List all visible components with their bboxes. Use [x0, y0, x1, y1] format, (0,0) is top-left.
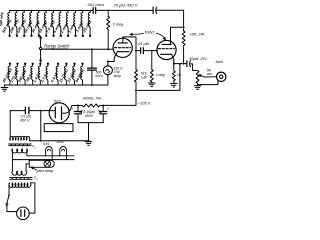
ground G1 — [1, 85, 8, 91]
capacitor C6 .01 ufd 450V buffer — [10, 107, 49, 122]
svg-text:¼W.: ¼W. — [141, 76, 148, 80]
capacitor C5 50ufd 25V — [183, 57, 208, 70]
inductor L3 row1 pos3 — [16, 10, 27, 37]
svg-text:3000Ω, 7W.: 3000Ω, 7W. — [83, 97, 102, 101]
wire top bus — [10, 9, 184, 11]
ground G5 — [85, 142, 92, 146]
inductor L11 row1 pos11 — [75, 10, 85, 37]
pilot lamp DS2 — [26, 160, 54, 171]
triode V1 (6SN7 section A) — [113, 38, 132, 61]
svg-text:mica: mica — [95, 74, 102, 78]
inductor L10 row1 pos10 — [67, 10, 76, 37]
svg-text:.001 mica: .001 mica — [87, 2, 105, 7]
wire heater/ground run — [30, 140, 90, 142]
wire wiper to grid — [42, 48, 114, 50]
lamp DS1 110V 2W — [103, 62, 123, 86]
range switch S2 wiper — [39, 36, 70, 62]
svg-text:50μfd, 25V.: 50μfd, 25V. — [189, 57, 207, 61]
inductor L16 row2 pos6 — [40, 63, 50, 85]
svg-text:ww.: ww. — [207, 72, 213, 76]
wire jack sleeve return — [198, 81, 218, 85]
inductor L5 row1 pos5 — [31, 10, 41, 37]
label 6SN7 with arrows — [130, 29, 166, 40]
wire ground bus — [5, 84, 108, 86]
svg-text:6SN7: 6SN7 — [57, 140, 65, 144]
inductor L8 row1 pos8 — [52, 10, 62, 37]
svg-text:1meg: 1meg — [156, 73, 165, 77]
transformer T1 secondary 6.3V — [12, 149, 28, 160]
svg-text:450V.: 450V. — [85, 114, 94, 118]
svg-text:Jack: Jack — [214, 60, 224, 64]
resistor R2 51K quarter W — [135, 51, 148, 91]
svg-text:6X5: 6X5 — [54, 100, 62, 104]
svg-text:3 meg.: 3 meg. — [113, 23, 125, 27]
plug P1 AC line — [17, 207, 35, 220]
inductor L18 row2 pos8 — [58, 63, 69, 85]
transformer T2 primary 115V — [9, 183, 35, 212]
inductor L15 row2 pos5 — [32, 63, 42, 85]
svg-text:+105 V.: +105 V. — [138, 100, 151, 105]
resistor R1 3 meg grid leak — [107, 10, 125, 50]
svg-text:6SN7: 6SN7 — [145, 29, 156, 34]
resistor R7 3000 ohm 7W — [82, 97, 104, 107]
inductor L17 row2 pos7 — [50, 63, 59, 85]
inductor L14 row2 pos4 — [25, 63, 34, 85]
resistor R5 1K cathode — [172, 71, 182, 83]
inductor L4 row1 pos4 — [23, 10, 33, 37]
triode V2 (6SN7 section B) — [157, 40, 176, 63]
resistor R4 10K 2W — [182, 31, 205, 46]
inductor L12 row1 pos12 — [82, 10, 93, 37]
wire filter cap rail — [78, 123, 103, 141]
label T2 — [34, 176, 39, 181]
inductor L12 row2 pos2 — [10, 63, 21, 85]
heater H1 6X5 — [43, 142, 52, 160]
inductor L19 row2 pos9 — [66, 63, 77, 85]
label pilot lamp — [31, 167, 54, 173]
resistor R3 1 meg grid — [150, 51, 164, 83]
potentiometer R6 5K — [196, 68, 213, 85]
transformer T1 core — [9, 144, 32, 146]
wire V2 plate to B+ — [171, 26, 185, 44]
wire V2 cathode node — [173, 63, 187, 71]
capacitor C3 500 mica — [88, 49, 103, 86]
rectifier V3 6X5 — [49, 100, 69, 123]
svg-text:20 μfd, 450 V.: 20 μfd, 450 V. — [113, 2, 139, 7]
ground G3 — [170, 83, 177, 87]
wire rectifier cathode — [66, 105, 83, 114]
wire heater rails — [12, 156, 74, 160]
transformer T1 primary — [10, 111, 30, 141]
svg-text:+: + — [72, 107, 74, 111]
label filter caps — [79, 110, 102, 118]
switch S1 line — [6, 194, 17, 211]
capacitor C4 .01 ufd coupling — [136, 42, 158, 54]
inductor L11 row2 pos1 — [2, 63, 13, 85]
label T1 — [32, 144, 37, 149]
ground G2 — [148, 83, 155, 87]
inductor L1 row1 pos1 — [0, 11, 13, 37]
transformer T2 core — [10, 178, 33, 180]
transformer T2 secondary 6.3V — [12, 160, 27, 176]
svg-text:+: + — [107, 107, 109, 111]
inductor L2 row1 pos2 — [8, 10, 20, 37]
svg-text:450 V.: 450 V. — [20, 119, 30, 123]
wire B+ feed — [103, 64, 183, 106]
rectifier base box — [44, 124, 73, 132]
svg-text:10K, 2W.: 10K, 2W. — [190, 32, 205, 36]
wire V1 cathode to lamp node — [107, 61, 114, 63]
label +105V — [138, 100, 151, 105]
capacitor C7 filter 8ufd — [72, 106, 82, 123]
heater H2 6SN7 — [57, 140, 67, 159]
wire HV riser — [40, 110, 42, 141]
capacitor C8 filter 16ufd — [100, 106, 109, 123]
svg-text:6X5: 6X5 — [43, 142, 49, 146]
svg-text:lamp: lamp — [114, 74, 121, 78]
inductor L13 row2 pos3 — [17, 63, 28, 85]
wire common bus right — [135, 63, 181, 91]
wire V1 plate to coupling node — [123, 37, 137, 52]
svg-text:Range Switch: Range Switch — [44, 44, 70, 49]
svg-text:pilot lamp: pilot lamp — [36, 168, 54, 173]
svg-text:.01 μfd.: .01 μfd. — [137, 42, 150, 46]
wire right B+ drop — [183, 10, 185, 64]
capacitor C2 20ufd 450V electrolytic — [113, 2, 157, 13]
capacitor C1 .001 mica — [87, 2, 105, 13]
inductor L7 row1 pos7 — [45, 10, 56, 37]
jack J1 output — [205, 60, 226, 82]
ground G4 — [194, 86, 201, 90]
inductor L6 row1 pos6 — [38, 10, 48, 37]
inductor L20 row2 pos10 — [74, 63, 85, 85]
inductor L9 row1 pos9 — [60, 10, 70, 37]
